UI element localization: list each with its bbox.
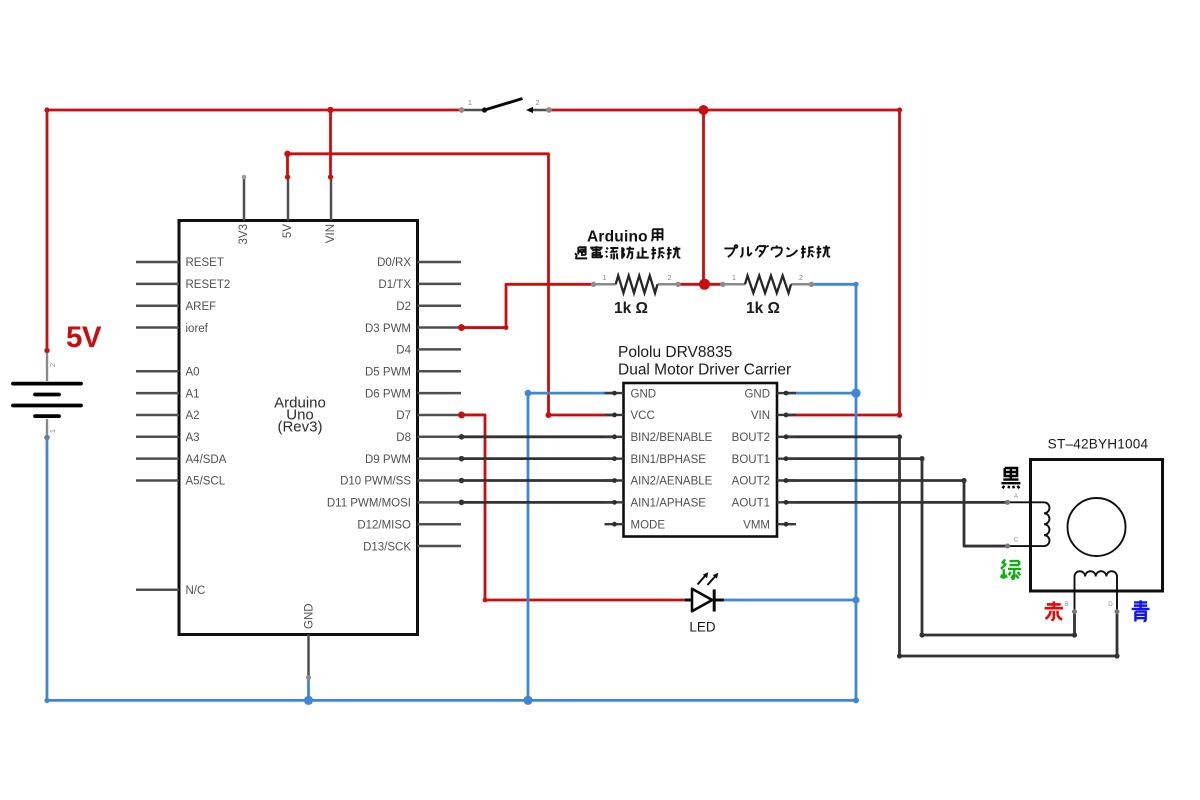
Arduino pin AREF [136,301,216,313]
svg-text:VIN: VIN [751,410,770,422]
Arduino pin A0 [136,366,200,378]
wire end dot on D10 [459,478,465,484]
Arduino pin N/C [136,585,205,597]
bend point [44,107,49,112]
Arduino pin D9 PWM [365,454,461,466]
battery pin label 2 [48,363,57,367]
bend point VCC corner [546,412,552,418]
svg-text:3V3: 3V3 [238,224,250,244]
wire end dot on D8 [459,434,465,440]
driver pin GND (left) [605,388,657,400]
svg-text:D9 PWM: D9 PWM [365,454,411,466]
svg-text:Dual Motor Driver Carrier: Dual Motor Driver Carrier [618,362,791,379]
svg-text:B: B [1064,601,1068,608]
svg-text:1: 1 [468,98,472,107]
motor pin label A [1014,493,1019,500]
svg-text:D5 PWM: D5 PWM [365,366,411,378]
wire driver GND left to ground bus [528,393,615,700]
svg-text:C: C [1014,537,1019,544]
svg-text:1k Ω: 1k Ω [614,300,648,317]
svg-text:BIN2/BENABLE: BIN2/BENABLE [631,432,713,444]
Arduino pin A4/SDA [136,454,227,466]
svg-text:AOUT1: AOUT1 [732,498,770,510]
svg-text:GND: GND [631,388,657,400]
svg-text:A0: A0 [186,366,200,378]
driver pin AOUT1 (right) [732,498,796,510]
wire driver GND right to ground bus [786,392,856,395]
wire end dot on D3 [458,324,465,331]
bend point D3 wire [504,325,509,330]
svg-text:D1/TX: D1/TX [378,279,411,291]
wire Arduino D3 to resistor R1 [462,284,594,327]
Arduino pin A5/SCL [136,476,226,488]
wire end dot on D7 [458,412,465,419]
svg-text:D10 PWM/SS: D10 PWM/SS [340,476,411,488]
svg-text:(Rev3): (Rev3) [277,419,322,436]
LED D1 [685,572,724,611]
svg-text:2: 2 [48,363,57,367]
bend point VIN corner [897,412,903,418]
junction 5V rail / switch node [699,105,709,115]
Arduino pin D11 PWM/MOSI [327,498,461,510]
R1 pin label 2 [667,273,671,282]
wire end dot on D9 [459,456,465,462]
wire 5V rail down to resistor junction [702,110,705,284]
R2 value label 1k ohm [746,300,780,317]
wire VIN pin of Arduino up to 5V rail [329,110,332,177]
svg-text:D7: D7 [396,410,411,422]
motor pin label D [1108,601,1113,608]
Arduino pin RESET [136,257,224,269]
svg-text:2: 2 [535,98,539,107]
bend point ground bus corner [853,697,859,703]
wire Arduino D10 to driver AIN2 [462,479,615,482]
Arduino pin GND [304,603,316,680]
svg-text:D11 PWM/MOSI: D11 PWM/MOSI [327,498,411,510]
svg-text:LED: LED [689,620,716,635]
Arduino label [274,395,326,436]
Arduino pin D4 [396,345,461,357]
svg-text:N/C: N/C [186,585,206,597]
bend point AOUT2 corner [961,478,966,483]
wire Arduino D8 to driver BIN2 [462,435,615,438]
svg-text:2: 2 [667,273,671,282]
label kanji: overcurrent prevention resistor [575,246,680,259]
battery BT1 5V (2-cell symbol) [13,348,81,441]
driver pin VIN (right) [751,410,796,422]
svg-text:A2: A2 [186,410,200,422]
bend point driver GND corner [525,390,532,397]
svg-text:5V: 5V [66,321,102,354]
svg-text:AREF: AREF [186,301,217,313]
svg-text:1: 1 [602,273,606,282]
driver pin BOUT2 (right) [732,432,796,444]
svg-text:ST–42BYH1004: ST–42BYH1004 [1048,437,1149,452]
driver pin AIN1/APHASE (left) [605,498,707,510]
Arduino pin 5V [282,175,294,238]
svg-text:A4/SDA: A4/SDA [186,454,227,466]
Arduino pin D3 PWM [365,323,461,335]
svg-text:1k Ω: 1k Ω [746,300,780,317]
wire LED cathode to ground bus [724,599,856,602]
wire Arduino D9 to driver BIN1 [462,457,615,460]
junction VIN tap [327,107,333,113]
driver pin AOUT2 (right) [732,476,796,488]
svg-text:A1: A1 [186,388,200,400]
battery pin label 1 [48,429,57,433]
Arduino pin D7 [396,410,461,422]
svg-text:ioref: ioref [186,323,209,335]
svg-text:Arduino: Arduino [587,228,648,245]
svg-text:D2: D2 [396,301,411,313]
svg-text:D: D [1108,601,1113,608]
bend point [919,632,924,637]
svg-text:AIN1/APHASE: AIN1/APHASE [631,498,707,510]
svg-text:RESET2: RESET2 [186,279,231,291]
svg-text:A3: A3 [186,432,200,444]
Arduino pin A2 [136,410,200,422]
svg-text:GND: GND [304,603,316,629]
label kanji you (use) [651,229,662,241]
label aka (red wire) [1045,601,1063,619]
junction ground bus / LED cathode [852,596,859,603]
bend point BOUT1 corner [919,456,924,461]
Arduino pin D6 PWM [365,388,461,400]
bend point [1072,632,1077,637]
junction ground bus / driver GND right [851,389,860,398]
switch pin label 1 [468,98,472,107]
Pololu DRV8835 driver U2 body [624,383,778,537]
Arduino pin VIN [325,175,337,243]
motor coil A-C (left winding) [1005,500,1049,549]
label Arduino-you (for Arduino) [587,228,648,245]
wire driver AOUT1 to motor pin A [786,501,1008,504]
bend point D7 wire [483,598,488,603]
switch pin label 2 [535,98,539,107]
wire end dot on 5V pin [285,174,290,179]
LED label [689,620,716,635]
wire end dot on VIN pin [328,174,333,179]
Arduino pin D0/RX [377,257,461,269]
R1 value label 1k ohm [614,300,648,317]
wire Arduino 5V pin to driver VCC [288,154,615,415]
switch S1 (SPST toggle, open) [459,99,552,114]
driver pin BOUT1 (right) [732,454,796,466]
Arduino Uno U1 body [179,221,418,635]
Arduino pin A3 [136,432,200,444]
bend point [1114,653,1119,658]
bend point [897,107,902,112]
driver pin BIN1/BPHASE (left) [605,454,707,466]
label midori (green wire) [1001,559,1021,578]
motor pin label C [1014,537,1019,544]
wire switch terminal 2 to driver VIN [549,110,900,415]
wire ground bus from battery- to R2 [47,284,856,700]
driver pin GND (right) [744,388,796,400]
svg-text:VIN: VIN [325,224,337,243]
R1 pin label 1 [602,273,606,282]
junction resistor node [699,279,710,290]
driver pin VCC (left) [605,410,655,422]
driver pin AIN2/AENABLE (left) [605,476,713,488]
label katakana+kanji: pull-down resistor [724,245,830,257]
wire driver AOUT2 to motor pin C [786,481,1008,547]
label 5V [66,321,102,354]
stepper motor M1 body [1031,460,1163,592]
svg-text:2: 2 [799,273,803,282]
Arduino pin D13/SCK [363,541,461,553]
resistor R2 1k (pull-down) [720,276,814,293]
driver pin BIN2/BENABLE (left) [605,432,713,444]
svg-text:AOUT2: AOUT2 [732,476,770,488]
label ao (blue wire) [1132,600,1150,621]
motor pin label B [1064,601,1068,608]
driver pin VMM (right) [743,519,796,531]
junction ground bus / driver GND [523,696,532,705]
wire Arduino D7 to LED anode [462,415,686,600]
wire R1 to R2 through junction [678,283,723,286]
svg-text:GND: GND [744,388,770,400]
motor coil B-D (bottom winding) [1072,571,1120,614]
Arduino pin D5 PWM [365,366,461,378]
Arduino pin ioref [136,323,209,335]
wire driver BOUT1 to motor pin B [786,459,1075,635]
wire battery+ to switch terminal 1 [47,110,462,351]
svg-text:AIN2/AENABLE: AIN2/AENABLE [631,476,713,488]
junction ground bus / Arduino GND [304,696,313,705]
svg-text:1: 1 [48,429,57,433]
svg-text:D4: D4 [396,345,411,357]
Arduino pin D12/MISO [357,519,461,531]
driver title [618,344,791,379]
Arduino pin D8 [396,432,461,444]
wire end dot on D11 [459,500,465,506]
R2 pin label 1 [732,273,736,282]
bend point [897,653,902,658]
Arduino pin D1/TX [378,279,461,291]
bend point battery- [44,698,49,703]
motor rotor circle [1068,498,1126,556]
svg-text:VMM: VMM [743,519,770,531]
svg-text:D8: D8 [396,432,411,444]
svg-text:A5/SCL: A5/SCL [186,476,226,488]
svg-text:VCC: VCC [631,410,655,422]
Arduino pin D2 [396,301,461,313]
Arduino pin A1 [136,388,200,400]
bend point 5V tap [284,151,290,157]
svg-text:1: 1 [732,273,736,282]
driver pin MODE (left) [605,519,666,531]
svg-text:D0/RX: D0/RX [377,257,411,269]
wire driver BOUT2 to motor pin D [786,437,1117,656]
label kuro (black wire) [1001,467,1020,489]
Arduino pin D10 PWM/SS [340,476,461,488]
Arduino pin RESET2 [136,279,230,291]
svg-text:BOUT1: BOUT1 [732,454,770,466]
svg-text:Pololu DRV8835: Pololu DRV8835 [618,344,732,361]
wire Arduino D11 to driver AIN1 [462,501,615,504]
svg-text:D6 PWM: D6 PWM [365,388,411,400]
wire Arduino GND pin to ground bus [307,678,310,701]
wire end dot on battery+ [45,348,50,353]
svg-text:BOUT2: BOUT2 [732,432,770,444]
Arduino pin 3V3 [238,175,250,245]
resistor R1 1k (Arduino current-limit) [591,276,681,293]
bend point R2 corner [853,282,858,287]
svg-text:MODE: MODE [631,519,666,531]
motor title ST-42BYH1004 [1048,437,1149,452]
svg-text:D12/MISO: D12/MISO [357,519,411,531]
svg-text:BIN1/BPHASE: BIN1/BPHASE [631,454,707,466]
R2 pin label 2 [799,273,803,282]
svg-text:RESET: RESET [186,257,224,269]
svg-text:D13/SCK: D13/SCK [363,541,411,553]
svg-text:D3 PWM: D3 PWM [365,323,411,335]
svg-text:5V: 5V [282,224,294,238]
bend point BOUT2 corner [897,434,902,439]
